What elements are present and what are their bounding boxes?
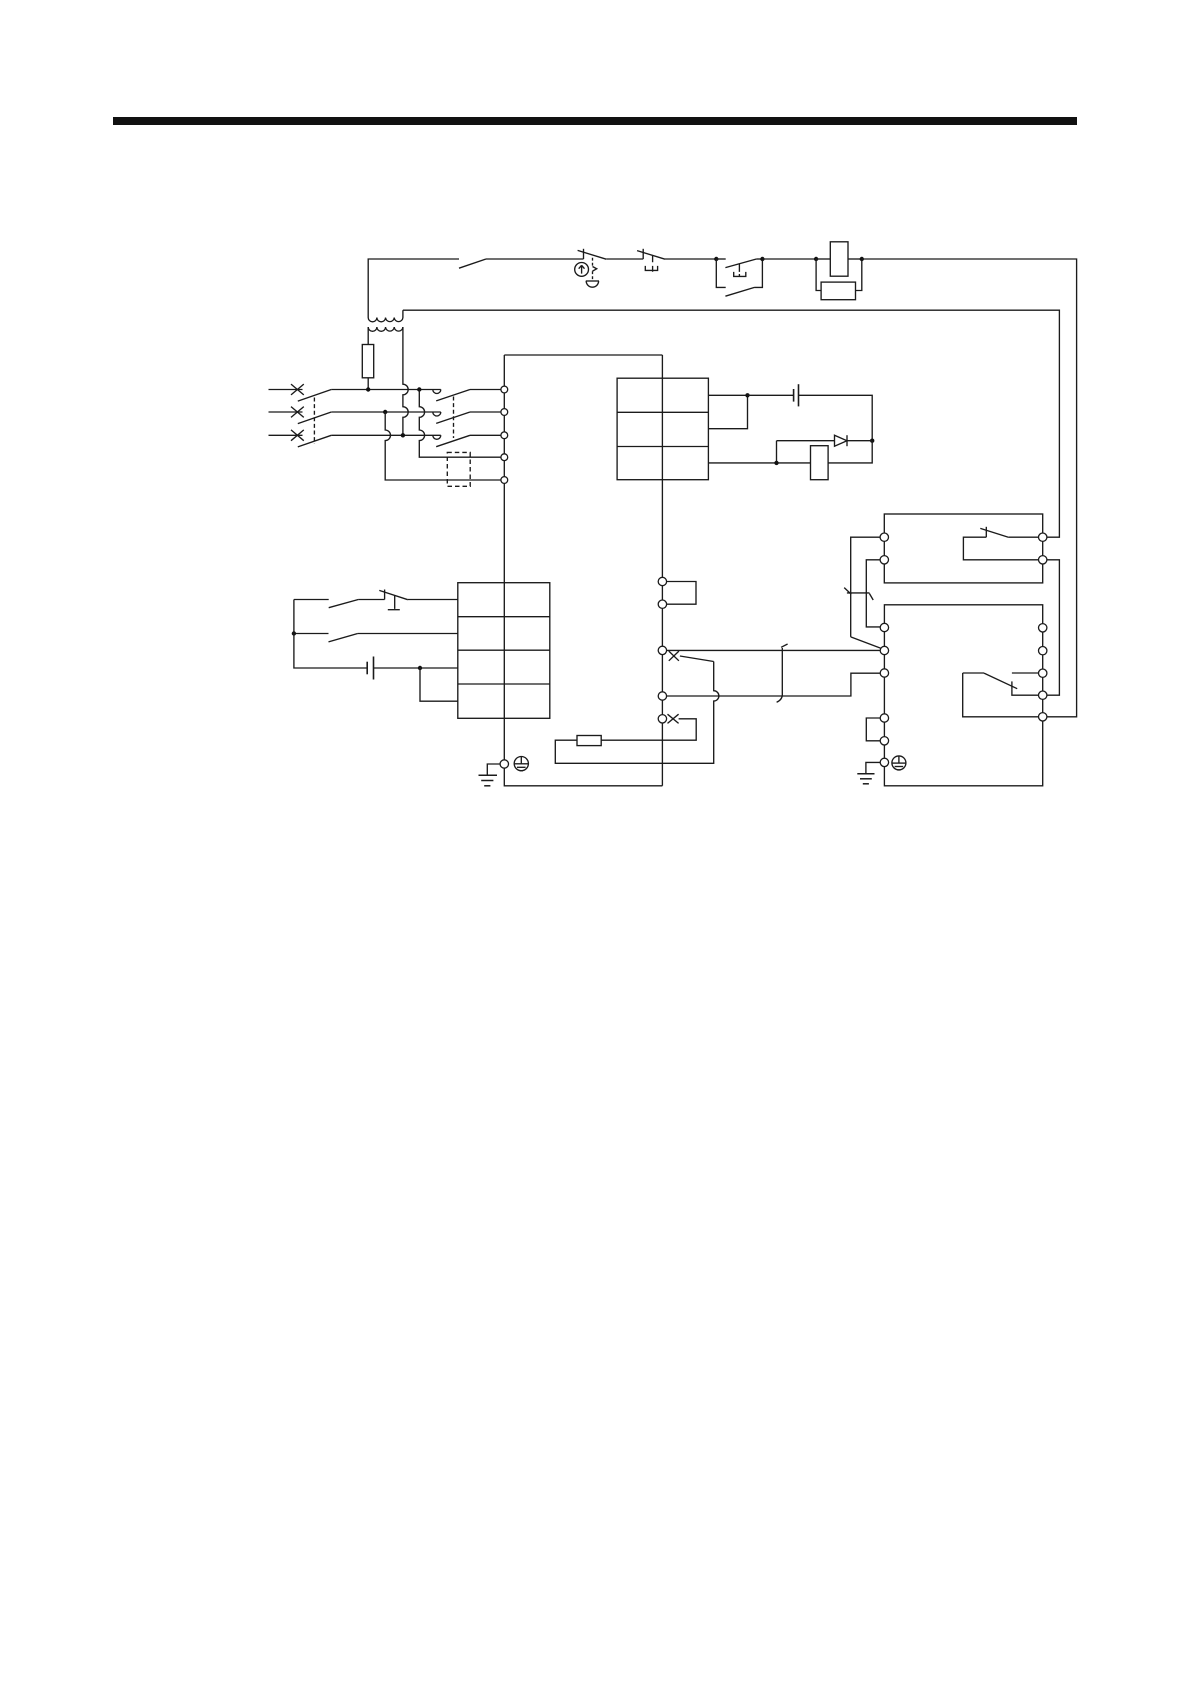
switch row1 blade: [329, 600, 359, 608]
connector CN1 table: [458, 583, 550, 719]
transformer T1: [368, 310, 408, 435]
diode D1: [777, 435, 873, 463]
node junction: [774, 461, 778, 465]
jumper motor pins 4-5: [866, 718, 880, 741]
wire to CN1 row3: [420, 667, 458, 669]
node junction: [745, 393, 749, 397]
terminal L11: [501, 454, 508, 461]
breaker NFB pole 3: [269, 430, 332, 447]
terminal D: [658, 600, 666, 608]
node junction: [714, 257, 718, 261]
wire: [408, 599, 458, 601]
node junction L21 tap: [383, 410, 387, 414]
terminal L3: [501, 432, 508, 439]
node junction L11 tap: [417, 387, 421, 391]
wire: [358, 633, 458, 635]
battery 24V: [367, 657, 420, 680]
terminal relay L2: [880, 556, 888, 564]
terminal CN B2: [658, 715, 666, 723]
wire amplifier to motor-box pin2: [667, 649, 881, 651]
wire relay-unit pin1 to brake switch: [851, 537, 880, 637]
regenerative option (dashed box): [447, 452, 470, 486]
terminal motor A2: [880, 646, 888, 654]
switch SW1 blade: [459, 259, 486, 268]
resistor R1: [577, 736, 601, 746]
motor box: [884, 605, 1042, 786]
node junction: [418, 666, 422, 670]
surge absorber: [816, 259, 862, 300]
terminal relay R2: [1039, 556, 1047, 564]
wire motor earth: [866, 762, 880, 773]
terminal L21: [501, 477, 508, 484]
header rule: [113, 117, 1077, 125]
servo amplifier box: [504, 355, 662, 786]
wire phase L3: [331, 434, 441, 436]
forced stop switch EMG: [575, 249, 607, 287]
wire control line left + transformer primary lead: [368, 259, 459, 318]
switch linkage bar: [847, 592, 870, 594]
node junction: [814, 257, 818, 261]
breaker NFB pole 1: [269, 384, 332, 401]
ground motor: [857, 774, 874, 784]
wire to CN1 row4: [420, 668, 458, 701]
node junction: [870, 439, 874, 443]
node junction fuse/L1: [366, 387, 370, 391]
brake coil: [708, 441, 872, 480]
second switch mark: [869, 594, 873, 601]
contact MC self-holding branch: [716, 259, 762, 296]
relay contact (NC) in relay unit: [963, 527, 1038, 560]
terminal relay R1: [1039, 533, 1047, 541]
connector pin X mark: [668, 714, 679, 723]
coil MC: [816, 242, 862, 276]
wire loop with hop crossing: [555, 662, 719, 764]
wire input bus: [294, 600, 367, 669]
node junction transformer/L3: [401, 433, 405, 437]
wire CN1 row1: [294, 599, 329, 601]
node junction: [860, 257, 864, 261]
ground amplifier: [479, 775, 498, 786]
motor power connector table: [617, 378, 708, 480]
terminal L2: [501, 409, 508, 416]
brake switch blade: [851, 637, 881, 648]
wire phase L1: [331, 389, 441, 391]
terminal motor PE: [880, 758, 888, 766]
breaker NFB pole 2: [269, 407, 332, 424]
wire relay pin2 to motor pin4: [1047, 560, 1060, 695]
terminal L1: [501, 386, 508, 393]
wire L11: [419, 390, 501, 458]
terminal motor B4: [1039, 691, 1047, 699]
terminal motor A4: [880, 714, 888, 722]
terminal motor B2: [1039, 647, 1047, 655]
contact blade to loop: [680, 656, 714, 662]
wire control bus 2: [403, 310, 1060, 537]
relay unit box: [884, 514, 1042, 583]
limit contact row1 (NC): [379, 590, 408, 610]
contact on sense line: [777, 644, 788, 702]
wire loop return: [601, 719, 696, 740]
wire earth: [487, 764, 500, 775]
terminal motor A1: [880, 623, 888, 631]
wire L21: [385, 412, 501, 480]
terminal CN C1: [658, 692, 666, 700]
pushbutton OFF (NC): [637, 249, 665, 272]
wire phase L2: [331, 411, 441, 413]
wire: [606, 258, 643, 260]
wire amplifier to motor-box pin3: [667, 673, 881, 696]
wire: [762, 258, 816, 260]
wire: [486, 258, 584, 260]
breaker linkage: [313, 398, 315, 445]
wire relay-unit pin2 to motor-box pin1: [866, 560, 880, 627]
wire CN1 row2: [294, 633, 329, 635]
terminal motor A3: [880, 669, 888, 677]
contactor MC pole 3: [433, 435, 501, 446]
brake switch mark: [844, 588, 851, 595]
wire control line to forced-stop terminal: [862, 259, 1077, 717]
connector pin X mark: [669, 651, 679, 661]
node junction: [760, 257, 764, 261]
switch row2 blade: [329, 634, 358, 642]
fuse F1: [362, 327, 373, 390]
terminal relay L1: [880, 533, 888, 541]
node junction bus: [292, 631, 296, 635]
thermal contact in motor box: [963, 673, 1039, 717]
pushbutton ON branch: [716, 259, 762, 277]
terminal CN B1: [658, 646, 666, 654]
contactor MC pole 1: [433, 390, 501, 401]
contactor linkage: [453, 397, 455, 439]
terminal PE amplifier: [500, 760, 508, 768]
wire motor U/V joined: [708, 395, 747, 428]
terminal motor B3: [1039, 669, 1047, 677]
terminal motor B1: [1039, 624, 1047, 632]
PE symbol motor: [892, 756, 906, 770]
PE symbol amplifier: [514, 757, 528, 771]
battery brake supply: [748, 384, 873, 441]
wire: [358, 599, 384, 601]
wire: [665, 258, 716, 260]
terminal P: [658, 577, 666, 585]
jumper P-D: [667, 582, 696, 605]
contactor MC pole 2: [433, 412, 501, 423]
terminal motor A5: [880, 737, 888, 745]
terminal motor B5: [1039, 713, 1047, 721]
